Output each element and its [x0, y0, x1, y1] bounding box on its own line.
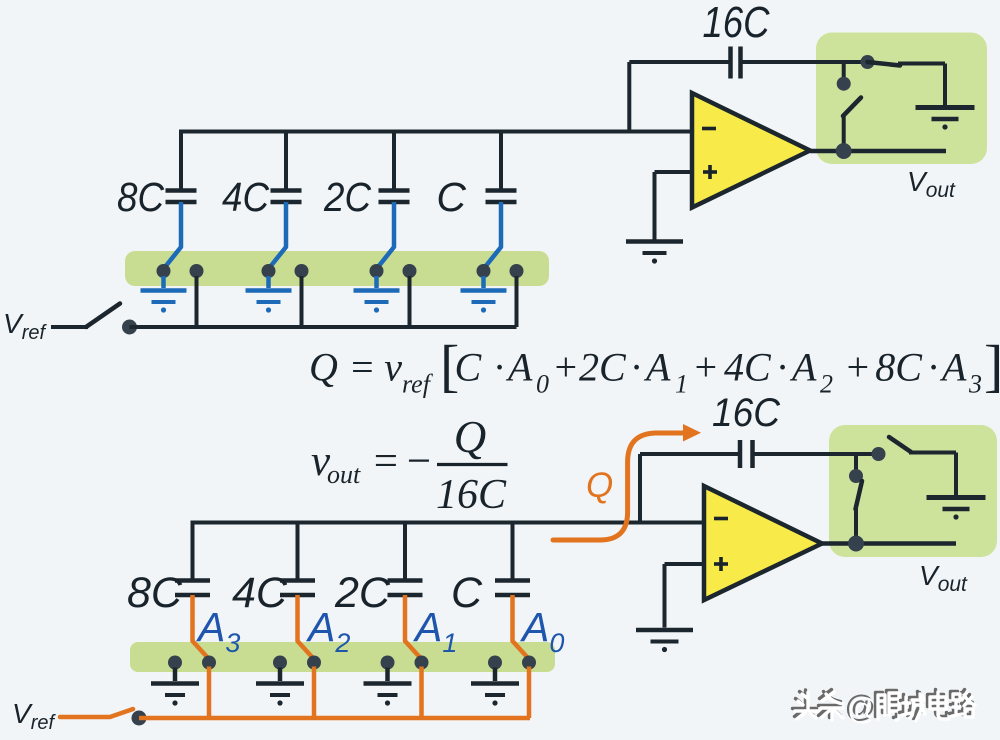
- wire blue bottom-plate of 8C to switch: [165, 202, 181, 267]
- switch S1 top-right contact (Vref side): [403, 264, 417, 278]
- svg-text:Vref: Vref: [3, 308, 47, 344]
- wire feedback riser (top): [627, 62, 631, 132]
- formula Q = v_ref[C.A0+2C.A1+4C.A2+8C.A3]: [309, 333, 1000, 399]
- capacitor 4C (bottom DAC) plates: [280, 578, 315, 583]
- green output box (bottom): [829, 425, 997, 557]
- wire 8C switch to Vref bus: [195, 276, 199, 327]
- svg-text:+: +: [844, 345, 871, 390]
- capacitor 16C (top feedback): [728, 47, 733, 79]
- ground (bottom op-amp + input): [636, 628, 693, 633]
- op-amp U2 plus pin label: [714, 562, 728, 566]
- capacitor C (top DAC) plates: [486, 188, 517, 193]
- wire switch to ground (top box): [898, 62, 945, 66]
- wire feedback right segment (top): [742, 60, 868, 64]
- capacitor 8C (top DAC) plates: [166, 188, 197, 193]
- svg-text:+: +: [692, 345, 719, 390]
- wire blue bottom-plate of 2C to switch: [378, 202, 394, 267]
- ground (bottom box): [927, 495, 986, 500]
- formula v_out = -Q/16C: [311, 412, 508, 518]
- svg-text:1: 1: [675, 370, 688, 399]
- svg-text:C: C: [455, 345, 483, 390]
- capacitor 2C (bottom DAC) plates: [388, 578, 423, 583]
- switch A1 right contact (Vref side, bottom): [415, 656, 429, 670]
- node V_ref switch contact (bottom): [132, 711, 147, 726]
- svg-text:A: A: [643, 345, 671, 390]
- ground (below 8C switch, blue): [161, 276, 166, 288]
- wire orange C switch to Vref bus (bottom): [527, 667, 532, 719]
- ground (below 4C switch, blue): [266, 276, 271, 288]
- switch S0 top-right contact (Vref side): [510, 264, 524, 278]
- wire C switch to Vref bus: [515, 276, 519, 327]
- ground (top box): [916, 105, 975, 110]
- svg-text:Q: Q: [454, 412, 487, 462]
- switch A0 right contact (Vref side, bottom): [522, 656, 536, 670]
- wire orange bottom-plate of 4C to switch: [298, 595, 313, 658]
- svg-text:out: out: [327, 460, 361, 489]
- switch S_d open blade (bottom box): [889, 437, 911, 452]
- wire op-amp output (bottom): [822, 541, 956, 546]
- ground (below 8C switch, bottom): [173, 668, 178, 682]
- wire blue bottom-plate of C to switch: [485, 202, 501, 267]
- svg-text:]: ]: [984, 333, 1000, 398]
- ground (below 4C switch, bottom): [278, 668, 283, 682]
- capacitor C (bottom DAC) plates: [495, 578, 530, 583]
- capacitor 4C (top DAC) lead: [284, 130, 288, 191]
- svg-text:A: A: [505, 345, 533, 390]
- capacitor 4C (top DAC) plates: [271, 188, 302, 193]
- svg-text:·: ·: [631, 345, 641, 390]
- node feedback switch tap (bottom box): [854, 454, 858, 472]
- svg-text:16C: 16C: [703, 0, 771, 47]
- switch S1 top-left contact (ground side): [370, 264, 384, 278]
- wire switch to ground (bottom box): [909, 451, 956, 455]
- node V_ref switch contact (top): [122, 320, 137, 335]
- svg-text:Vout: Vout: [919, 560, 968, 596]
- wire + input to ground (bottom): [665, 562, 705, 566]
- green highlight band (top switch row): [125, 251, 549, 286]
- svg-text:8C: 8C: [127, 569, 183, 617]
- wire feedback riser (bottom): [638, 454, 642, 523]
- node op-amp output (bottom box): [848, 536, 864, 552]
- switch S_b closed blade (top box): [868, 62, 901, 66]
- capacitor 4C (bottom DAC) lead: [296, 521, 300, 581]
- capacitor 2C (top DAC) lead: [392, 130, 396, 191]
- svg-text:=: =: [349, 345, 376, 390]
- capacitor 8C (bottom DAC) plates: [175, 578, 210, 583]
- wire orange bottom-plate of 8C to switch: [193, 595, 208, 658]
- switch A2 right contact (Vref side, bottom): [307, 656, 321, 670]
- wire top summing bus (bottom circuit): [191, 521, 705, 525]
- capacitor 2C (top DAC) plates: [379, 188, 410, 193]
- green highlight band (bottom switch row): [130, 642, 555, 672]
- node feedback wire contact (top box): [861, 55, 875, 69]
- ground (below 2C switch, bottom): [385, 668, 390, 682]
- op-amp U2 minus pin label: [714, 517, 728, 521]
- wire orange bottom Vref bus: [139, 716, 530, 721]
- ground (top op-amp + input): [626, 239, 683, 244]
- switch S_a (top box, open blade): [843, 98, 861, 117]
- node feedback switch tap (top box): [842, 62, 846, 80]
- ground (below C switch, bottom): [493, 668, 498, 682]
- ground (below 2C switch, blue): [374, 276, 379, 288]
- switch A3 left contact (ground side, bottom): [168, 656, 182, 670]
- svg-text:@: @: [847, 691, 878, 726]
- wire V_ref lead (top): [51, 325, 88, 329]
- switch A3 right contact (Vref side, bottom): [202, 656, 216, 670]
- svg-text:Q: Q: [586, 466, 613, 505]
- switch V_ref (top, open blade): [86, 304, 120, 328]
- wire feedback right segment (bottom): [753, 452, 879, 456]
- svg-text:Vref: Vref: [12, 698, 56, 734]
- svg-text:·: ·: [777, 345, 787, 390]
- svg-text:A0: A0: [519, 604, 564, 658]
- switch S2 top-right contact (Vref side): [295, 264, 309, 278]
- wire orange 2C switch to Vref bus (bottom): [419, 667, 424, 719]
- svg-text:+: +: [552, 345, 579, 390]
- ground (below C switch, blue): [481, 276, 486, 288]
- node feedback wire contact (bottom box): [872, 447, 886, 461]
- wire orange 4C switch to Vref bus (bottom): [312, 667, 317, 719]
- wire orange 8C switch to Vref bus (bottom): [207, 667, 212, 719]
- wire blue bottom-plate of 4C to switch: [270, 202, 286, 267]
- switch A2 left contact (ground side, bottom): [273, 656, 287, 670]
- capacitor C (bottom DAC) lead: [511, 521, 515, 581]
- wire 2C switch to Vref bus: [408, 276, 412, 327]
- svg-text:A: A: [789, 345, 817, 390]
- switch A0 left contact (ground side, bottom): [488, 656, 502, 670]
- wire orange V_ref lead (bottom): [60, 709, 133, 717]
- wire orange bottom-plate of C to switch: [513, 595, 528, 658]
- svg-text:−: −: [404, 438, 433, 485]
- node op-amp output (top box): [836, 143, 852, 159]
- svg-text:16C: 16C: [712, 391, 781, 435]
- wire op-amp output (top): [810, 149, 946, 154]
- wire top summing bus: [179, 130, 692, 134]
- svg-text:A: A: [939, 345, 967, 390]
- switch S0 top-left contact (ground side): [477, 264, 491, 278]
- switch S3 top-right contact (Vref side): [190, 264, 204, 278]
- switch S3 top-left contact (ground side): [157, 264, 171, 278]
- wire feedback left segment (bottom): [640, 452, 740, 456]
- capacitor 8C (top DAC) lead: [179, 130, 183, 191]
- svg-text:4C: 4C: [724, 345, 772, 390]
- capacitor 2C (bottom DAC) lead: [403, 521, 407, 581]
- svg-text:Vout: Vout: [907, 166, 956, 202]
- op-amp U1 minus pin label: [702, 127, 716, 131]
- op-amp U1 plus pin label: [703, 170, 717, 174]
- svg-text:16C: 16C: [436, 472, 507, 518]
- svg-text:Q: Q: [309, 345, 338, 390]
- svg-text:2C: 2C: [323, 174, 371, 220]
- green output box (top): [816, 33, 987, 165]
- svg-text:4C: 4C: [222, 174, 269, 220]
- svg-text:8C: 8C: [875, 345, 923, 390]
- svg-text:2C: 2C: [579, 345, 627, 390]
- svg-text:3: 3: [968, 370, 982, 399]
- op-amp U1 (top): [692, 93, 810, 208]
- wire orange bottom-plate of 2C to switch: [405, 595, 420, 658]
- capacitor 16C (bottom feedback): [738, 440, 743, 468]
- svg-text:0: 0: [536, 370, 549, 399]
- wire blade to output node (bottom box): [854, 507, 858, 544]
- capacitor 8C (bottom DAC) lead: [191, 521, 195, 581]
- svg-text:2C: 2C: [334, 569, 391, 617]
- switch S2 top-left contact (ground side): [262, 264, 276, 278]
- watermark brand text (white with shadow): [793, 689, 976, 727]
- arrow Q (orange, charge flow): [553, 433, 685, 540]
- svg-text:·: ·: [928, 345, 938, 390]
- svg-text:2: 2: [820, 370, 833, 399]
- svg-text:v: v: [384, 345, 402, 390]
- wire blade to output node (top box): [842, 114, 846, 151]
- svg-text:·: ·: [494, 345, 504, 390]
- svg-text:C: C: [451, 569, 483, 617]
- svg-text:C: C: [436, 174, 466, 220]
- svg-text:4C: 4C: [232, 569, 288, 617]
- svg-text:ref: ref: [402, 370, 434, 399]
- svg-text:8C: 8C: [117, 174, 164, 220]
- wire bottom Vref bus (top circuit): [130, 325, 517, 329]
- switch S_c (bottom box, open blade): [856, 481, 863, 509]
- wire 4C switch to Vref bus: [300, 276, 304, 327]
- wire feedback left segment (top): [629, 60, 729, 64]
- op-amp U2 (bottom): [704, 486, 822, 600]
- capacitor C (top DAC) lead: [499, 130, 503, 191]
- switch A1 left contact (ground side, bottom): [381, 656, 395, 670]
- wire + input to ground (top): [655, 170, 693, 174]
- svg-text:=: =: [371, 438, 400, 485]
